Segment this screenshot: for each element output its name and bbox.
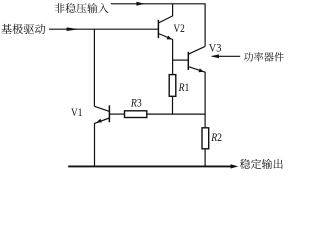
- svg-text:V3: V3: [209, 42, 222, 55]
- resistor R3 body: [125, 111, 147, 118]
- transistor V3 emitter (diagonal + wire down to R2): [188, 67, 205, 128]
- wire: top unregulated-input rail with corner down to V3 collector branch: [111, 4, 205, 47]
- resistor R2 body: [202, 128, 209, 149]
- svg-text:R3: R3: [130, 97, 142, 110]
- transistor V1 emitter arrowhead: [97, 119, 102, 123]
- label: base drive (基极驱动): [1, 24, 45, 34]
- svg-text:R1: R1: [178, 81, 190, 94]
- wire: base-drive line into V2 base: [49, 28, 158, 30]
- transistor V1 base bar: [108, 105, 110, 122]
- arrowhead on output rail (points right): [231, 164, 239, 168]
- transistor V3 base bar: [187, 52, 189, 70]
- transistor V1 base wire to R3: [109, 113, 124, 115]
- transistor V1 collector diagonal: [94, 106, 109, 111]
- wire: node line from R3 to V3 emitter / R2 branch: [147, 113, 205, 115]
- wire: V2 emitter node to V3 base: [173, 59, 189, 61]
- callout arrow pointing left at V3 (power device): [213, 55, 241, 57]
- wire: drop from base-drive line down to V1 collector: [93, 29, 95, 106]
- svg-text:V1: V1: [71, 107, 82, 119]
- arrowhead on base-drive line (points right): [67, 27, 79, 31]
- wire: bottom regulated-output rail: [68, 165, 231, 167]
- transistor V2 emitter (diagonal + wire down to R1 / V3 base node): [158, 34, 172, 75]
- arrowhead on unregulated-input rail (points right): [136, 2, 144, 6]
- label: power device (功率器件): [244, 52, 284, 61]
- transistor V3 emitter arrowhead: [199, 68, 204, 72]
- resistor R1 body: [169, 75, 176, 97]
- transistor V2 base bar: [157, 20, 159, 38]
- svg-text:V2: V2: [173, 23, 184, 35]
- label: regulated output (稳定输出): [240, 159, 283, 169]
- resistor R2 bottom lead: [204, 149, 206, 166]
- svg-text:R2: R2: [210, 131, 222, 144]
- transistor V2 collector (diagonal + wire up to top rail): [158, 4, 172, 23]
- transistor V2 emitter arrowhead: [167, 36, 172, 40]
- label: unregulated input (非稳压输入): [55, 3, 109, 13]
- transistor V1 emitter (diagonal + wire down to output rail): [95, 118, 110, 166]
- resistor R1 bottom lead: [172, 97, 174, 114]
- transistor V3 collector diagonal: [188, 46, 205, 54]
